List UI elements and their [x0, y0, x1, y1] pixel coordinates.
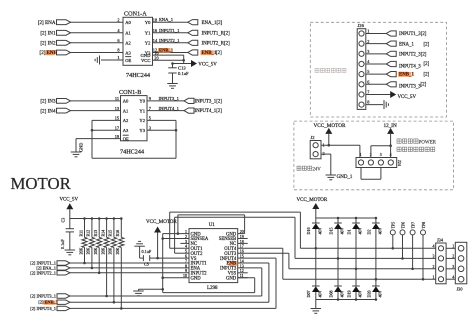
svg-text:TP8: TP8	[421, 222, 426, 229]
svg-text:[2] IN3: [2] IN3	[40, 99, 56, 105]
svg-text:A3: A3	[123, 128, 129, 133]
svg-text:3: 3	[452, 264, 454, 269]
svg-text:INPUT2_3[2]: INPUT2_3[2]	[399, 52, 427, 57]
svg-text:Y3: Y3	[139, 128, 145, 133]
svg-text:A1: A1	[123, 108, 129, 113]
svg-text:5: 5	[367, 69, 369, 74]
svg-text:2: 2	[452, 254, 454, 259]
svg-text:4: 4	[452, 274, 454, 279]
svg-text:[2] INPUT2_1: [2] INPUT2_1	[30, 270, 56, 275]
svg-text:ENB_1: ENB_1	[399, 73, 415, 78]
svg-text:9: 9	[149, 96, 151, 101]
svg-text:[2] INPUT3_1: [2] INPUT3_1	[30, 294, 56, 299]
svg-text:13: 13	[115, 106, 119, 111]
svg-text:INPUT4_1[2]: INPUT4_1[2]	[195, 109, 223, 114]
svg-text:24V: 24V	[313, 167, 322, 172]
svg-text:A3: A3	[125, 50, 131, 55]
svg-text:18: 18	[153, 17, 157, 22]
svg-text:INPUT3_3: INPUT3_3	[399, 85, 421, 90]
svg-text:8: 8	[367, 100, 369, 105]
svg-text:ENB_1: ENB_1	[202, 51, 218, 56]
svg-text:3: 3	[433, 254, 435, 259]
svg-text:0.1uF: 0.1uF	[142, 249, 152, 254]
svg-text:40V: 40V	[317, 227, 322, 234]
svg-text:Y2: Y2	[145, 41, 151, 46]
svg-text:4: 4	[390, 153, 392, 157]
svg-text:1: 1	[367, 29, 369, 34]
svg-text:R11: R11	[78, 230, 83, 237]
svg-text:J26: J26	[358, 23, 365, 28]
svg-text:TP7: TP7	[410, 222, 415, 229]
svg-text:20K: 20K	[108, 248, 113, 255]
svg-text:Y0: Y0	[145, 20, 151, 25]
svg-text:GND: GND	[226, 276, 237, 281]
svg-text:MOTOR: MOTOR	[11, 174, 72, 193]
svg-text:2: 2	[433, 264, 435, 269]
svg-text:C3: C3	[60, 218, 65, 223]
svg-text:20K: 20K	[115, 248, 120, 255]
svg-text:0.1uF: 0.1uF	[178, 71, 189, 76]
svg-text:U1: U1	[209, 223, 216, 228]
svg-text:19: 19	[115, 134, 119, 139]
svg-text:40V: 40V	[317, 290, 322, 297]
svg-text:OE: OE	[123, 136, 129, 141]
svg-text:VCC_MOTOR: VCC_MOTOR	[297, 198, 328, 203]
svg-text:INPUT3_1[2]: INPUT3_1[2]	[195, 100, 223, 105]
svg-text:40V: 40V	[378, 290, 383, 297]
svg-text:2: 2	[367, 39, 369, 44]
svg-text:GND: GND	[79, 143, 84, 152]
svg-text:[2]: [2]	[421, 83, 427, 88]
svg-text:VCC_5V: VCC_5V	[60, 197, 79, 202]
svg-text:40V: 40V	[358, 227, 363, 234]
svg-text:74HC244: 74HC244	[120, 149, 144, 156]
svg-text:4: 4	[433, 244, 435, 249]
svg-text:20K: 20K	[100, 248, 105, 255]
svg-text:[2]: [2]	[40, 50, 46, 56]
svg-text:[2] IN1: [2] IN1	[40, 31, 56, 37]
svg-text:8: 8	[117, 48, 119, 53]
svg-text:A0: A0	[125, 20, 131, 25]
svg-text:D07: D07	[306, 290, 311, 297]
svg-text:20K: 20K	[93, 248, 98, 255]
svg-text:A2: A2	[123, 118, 129, 123]
svg-text:D19: D19	[346, 290, 351, 297]
svg-text:VCC: VCC	[141, 58, 150, 63]
svg-text:12_IN: 12_IN	[384, 123, 398, 129]
svg-text:[2] IN2: [2] IN2	[40, 41, 56, 47]
svg-text:D15: D15	[328, 227, 333, 234]
svg-text:[2]: [2]	[424, 62, 430, 67]
svg-text:ENA_1: ENA_1	[159, 17, 174, 22]
svg-text:[2]: [2]	[38, 300, 44, 305]
svg-text:GND: GND	[191, 276, 202, 281]
svg-text:[2] INPUT4_1: [2] INPUT4_1	[30, 306, 56, 311]
svg-text:L298: L298	[207, 286, 218, 291]
svg-text:ENA_1: ENA_1	[399, 42, 414, 47]
svg-text:ENB: ENB	[47, 50, 58, 56]
svg-text:A0: A0	[123, 99, 129, 104]
svg-text:A2: A2	[125, 41, 131, 46]
svg-text:3: 3	[367, 49, 369, 54]
svg-text:0.1uF: 0.1uF	[60, 239, 65, 249]
svg-text:J24: J24	[397, 160, 402, 167]
svg-text:INPUT4_1: INPUT4_1	[159, 106, 180, 111]
svg-text:1: 1	[433, 274, 435, 279]
svg-text:[2]: [2]	[424, 73, 430, 78]
svg-text:INPUT2_R[2]: INPUT2_R[2]	[202, 41, 231, 46]
svg-text:OE: OE	[125, 58, 131, 63]
svg-text:Y1: Y1	[139, 108, 145, 113]
svg-text:[2] IN4: [2] IN4	[40, 108, 56, 114]
svg-text:[2]: [2]	[216, 51, 222, 56]
svg-text:3: 3	[380, 153, 382, 157]
svg-text:[2]: [2]	[424, 42, 430, 47]
svg-text:2: 2	[117, 17, 119, 22]
svg-text:D1: D1	[346, 229, 351, 234]
svg-text:TP6: TP6	[400, 222, 405, 229]
svg-text:Y0: Y0	[139, 99, 145, 104]
svg-text:GND_1: GND_1	[337, 175, 353, 180]
svg-text:VCC_5V: VCC_5V	[398, 95, 417, 100]
svg-text:J30: J30	[457, 287, 463, 292]
svg-text:CON1-B: CON1-B	[119, 89, 141, 96]
svg-text:INPUT1_R[2]: INPUT1_R[2]	[202, 31, 231, 36]
svg-text:20K: 20K	[86, 248, 91, 255]
svg-text:15: 15	[115, 116, 119, 121]
svg-text:R14: R14	[100, 230, 105, 237]
svg-text:20K: 20K	[78, 248, 83, 255]
svg-text:74HC244: 74HC244	[126, 72, 150, 79]
svg-text:J2: J2	[311, 135, 316, 140]
svg-text:40V: 40V	[340, 227, 345, 234]
svg-text:INPUT4_3: INPUT4_3	[399, 64, 421, 69]
svg-text:D2: D2	[366, 229, 371, 234]
svg-text:1: 1	[117, 55, 119, 60]
svg-text:VCC_5V: VCC_5V	[198, 62, 217, 67]
svg-text:TP5: TP5	[391, 222, 396, 229]
svg-text:1: 1	[360, 153, 362, 157]
svg-text:R15: R15	[108, 230, 113, 237]
svg-text:Y1: Y1	[145, 31, 151, 36]
svg-text:1: 1	[452, 244, 454, 249]
svg-text:11: 11	[115, 96, 119, 101]
svg-text:[2] ENA: [2] ENA	[38, 20, 56, 26]
svg-text:3: 3	[149, 125, 151, 130]
svg-text:40V: 40V	[358, 290, 363, 297]
svg-text:INPUT2_1: INPUT2_1	[159, 38, 180, 43]
svg-text:J34: J34	[437, 238, 444, 243]
svg-text:GND: GND	[140, 53, 151, 58]
svg-text:Y2: Y2	[139, 118, 145, 123]
svg-text:R13: R13	[93, 230, 98, 237]
svg-text:ENB_1: ENB_1	[45, 300, 58, 305]
svg-text:ENB_1: ENB_1	[159, 48, 174, 53]
svg-text:R16: R16	[115, 230, 120, 237]
svg-text:40V: 40V	[340, 290, 345, 297]
svg-text:INPUT1_3[2]: INPUT1_3[2]	[399, 32, 427, 37]
svg-text:D20: D20	[366, 290, 371, 297]
svg-text:40V: 40V	[378, 227, 383, 234]
svg-text:INPUT3_1: INPUT3_1	[159, 96, 180, 101]
svg-text:VCC_MOTOR: VCC_MOTOR	[314, 123, 346, 129]
svg-text:A1: A1	[125, 31, 131, 36]
svg-text:C5: C5	[144, 262, 149, 267]
svg-text:CON1-A: CON1-A	[124, 10, 147, 17]
svg-text:ENA_1[2]: ENA_1[2]	[202, 21, 223, 26]
svg-text:R12: R12	[86, 230, 91, 237]
svg-text:5: 5	[149, 116, 151, 121]
svg-text:D16: D16	[306, 227, 311, 234]
svg-text:D08: D08	[328, 290, 333, 297]
svg-text:C13: C13	[178, 65, 186, 70]
svg-text:VCC_MOTOR: VCC_MOTOR	[146, 220, 177, 225]
svg-text:POWER: POWER	[419, 140, 437, 145]
svg-text:INPUT1_1: INPUT1_1	[159, 28, 180, 33]
